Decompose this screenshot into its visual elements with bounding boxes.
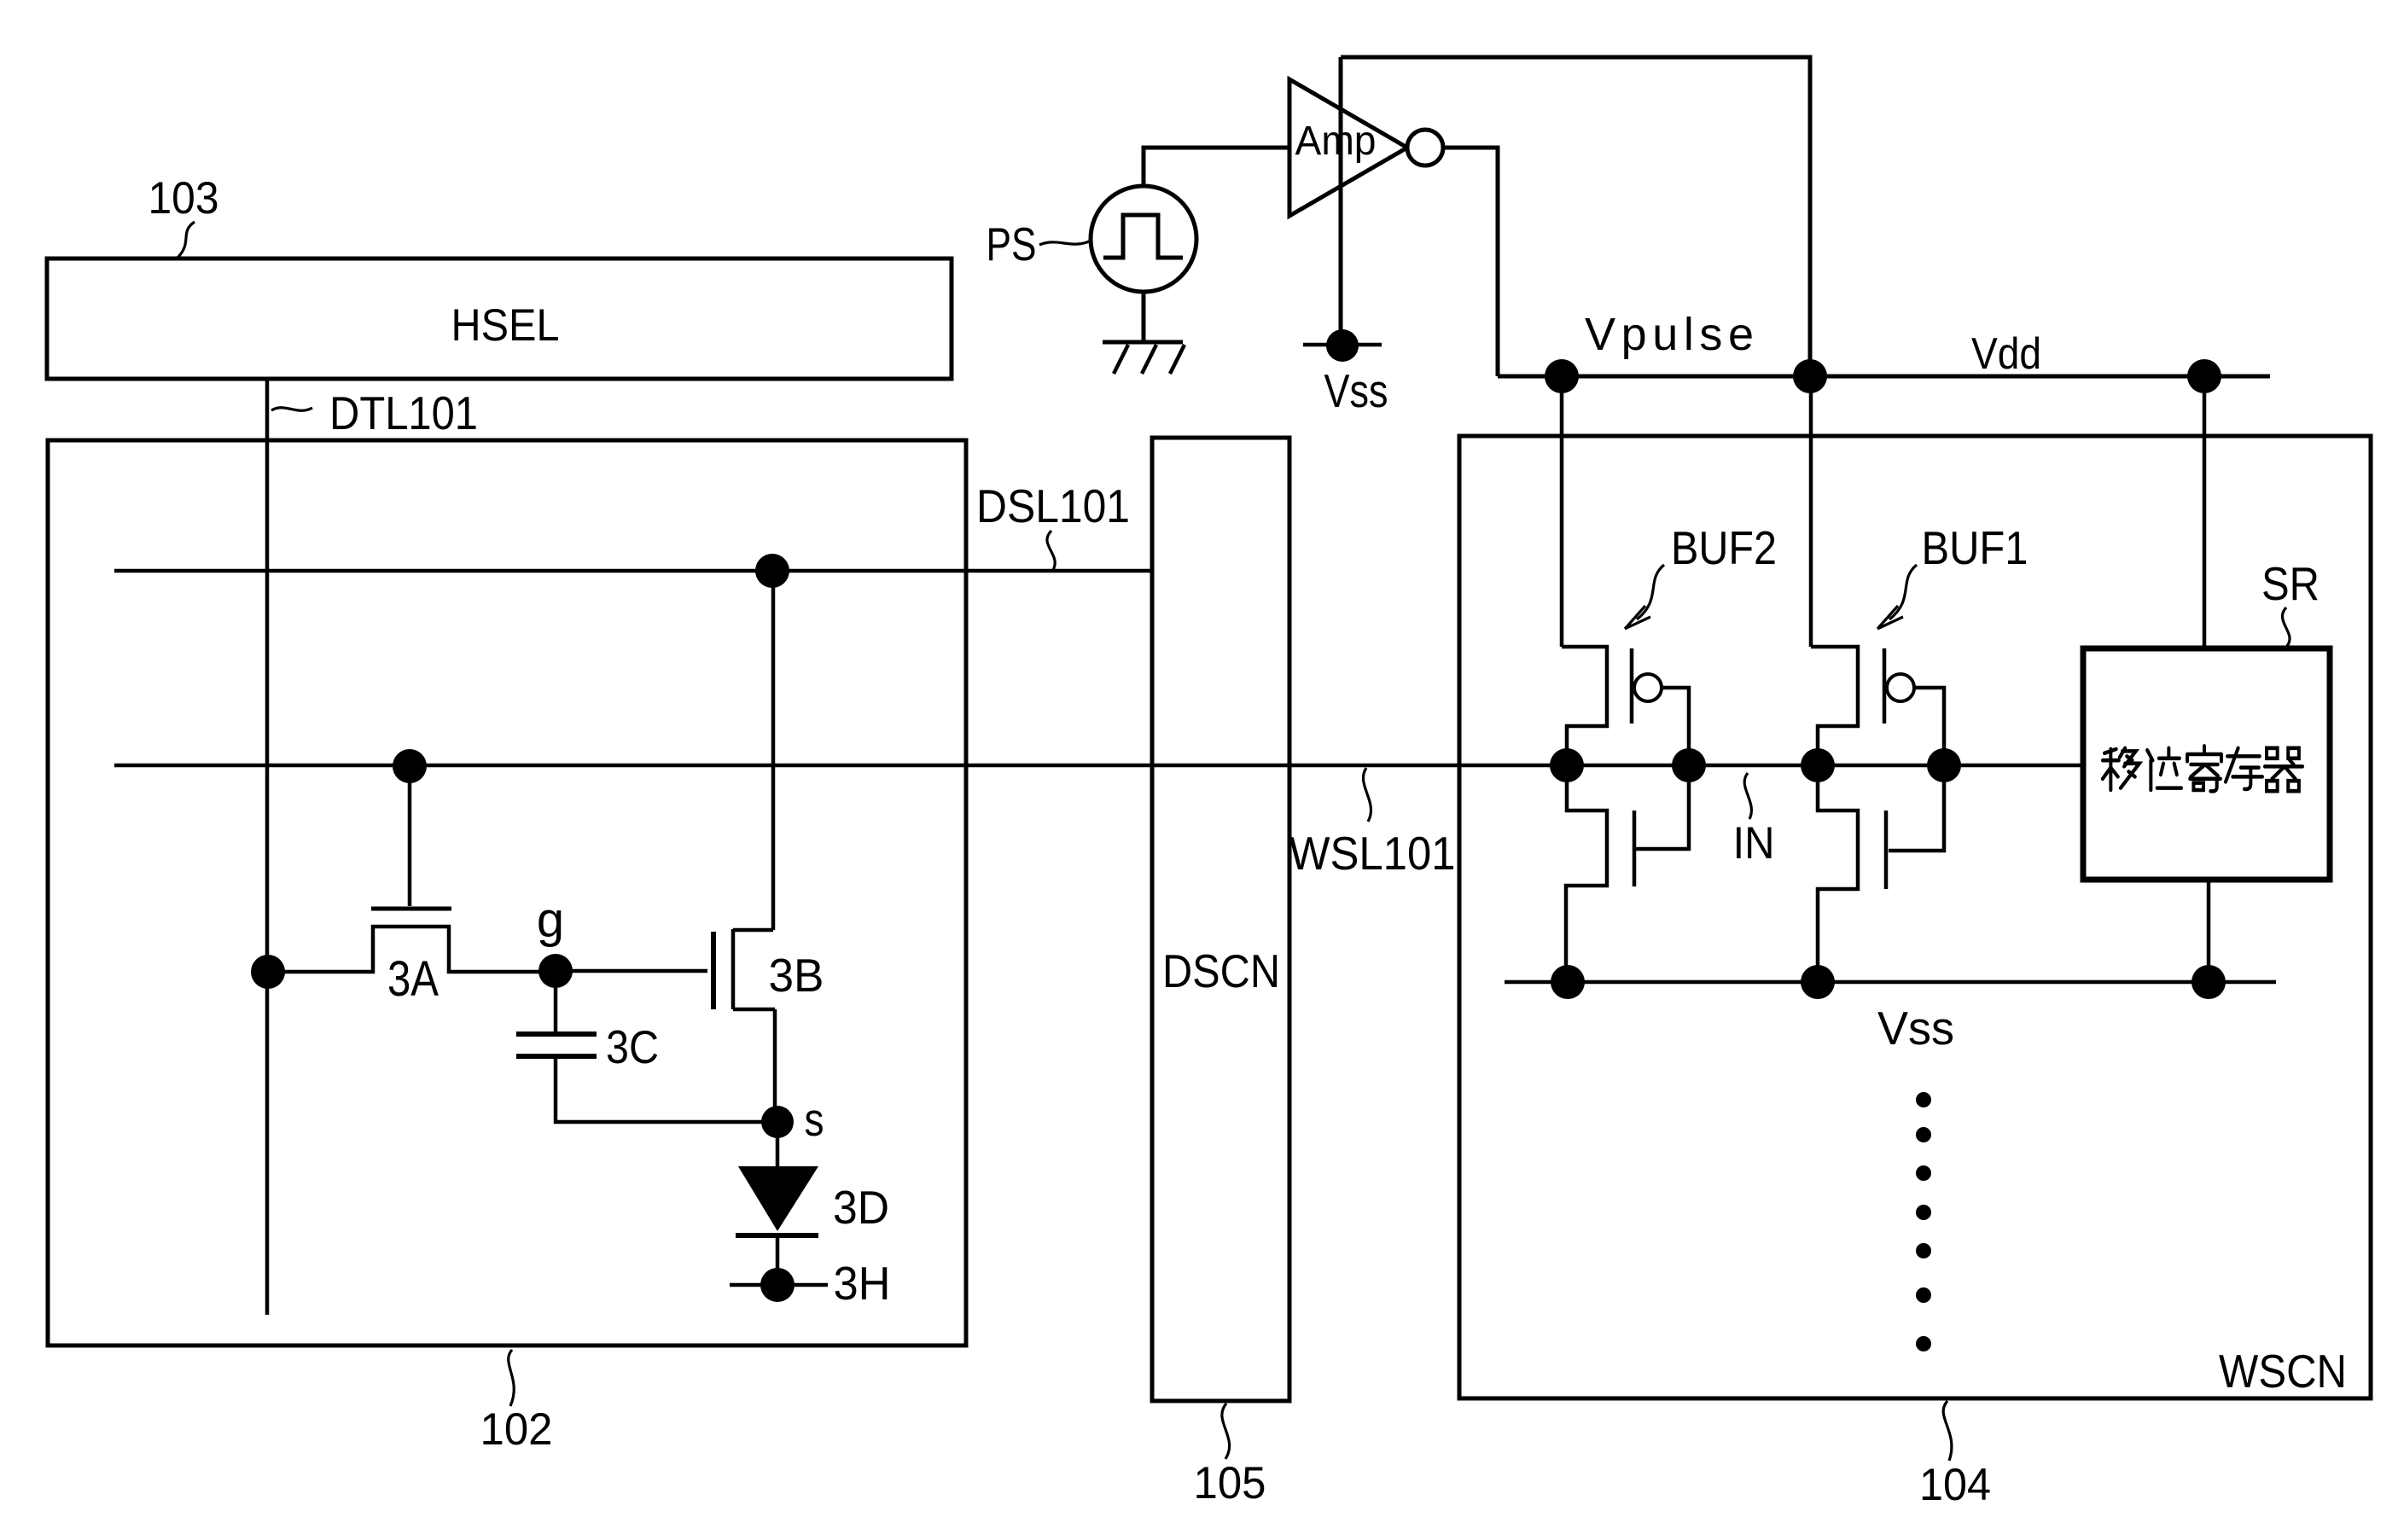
node BUF1 in [1927,748,1961,782]
leader squiggle WSL101 [1363,768,1371,822]
svg-text:BUF2: BUF2 [1671,521,1777,574]
box SR shift register [2083,648,2330,880]
svg-text:105: 105 [1194,1458,1266,1508]
svg-text:3A: 3A [387,951,439,1007]
pulse source PS [1091,186,1196,292]
node DSL101 junction [755,554,789,588]
node SR Vss [2192,965,2226,999]
arrow BUF2 [1637,565,1664,619]
photodiode 3D [776,1122,780,1166]
transistor BUF2 PMOS [1562,647,1607,765]
wire DTL101 [265,379,270,1315]
Vss terminal under Amp [1303,343,1382,347]
svg-text:103: 103 [148,173,219,224]
wire amp output to Vpulse rail [1443,148,1498,376]
capacitor 3C [554,971,558,1032]
wire WSL101 [114,764,2083,768]
node Vdd junction [1793,359,1827,393]
svg-text:102: 102 [480,1404,553,1455]
wire Vpulse feed [1560,376,1564,647]
node SR feed [2187,359,2221,393]
leader squiggle IN [1744,773,1751,819]
label shift register CJK (hand-drawn) [2103,746,2302,791]
svg-text:3C: 3C [606,1020,659,1073]
node DTL junction [251,955,285,989]
svg-text:Vpulse: Vpulse [1585,309,1754,360]
char cun (store) [2226,748,2262,789]
transistor BUF2 NMOS [1566,765,1607,982]
box 102 pixel [48,440,966,1345]
Vpulse Vdd rail [1498,375,2270,379]
svg-text:3H: 3H [834,1257,891,1310]
leader squiggle 102 [509,1350,515,1406]
box DSCN 105 [1152,438,1289,1401]
leader squiggle DSL101 [1047,531,1055,570]
node 3A gate tap [393,749,427,783]
wire feedback top rail [1341,57,1810,376]
node BUF2 in [1672,748,1706,782]
svg-text:Vdd: Vdd [1971,329,2041,379]
box WSCN 104 [1459,436,2371,1398]
node s [761,1106,794,1138]
svg-text:WSCN: WSCN [2219,1345,2347,1398]
svg-text:Amp: Amp [1295,119,1377,164]
node g [538,954,573,988]
svg-text:3B: 3B [769,949,824,1002]
svg-text:DSL101: DSL101 [976,479,1130,532]
svg-text:BUF1: BUF1 [1922,521,2029,574]
transistor 3A [371,907,451,911]
wire SR bottom [2207,880,2211,982]
wire 3B drain [771,571,776,930]
wire PS to Amp input [1144,148,1289,186]
char wei (position) [2147,748,2181,790]
transistor 3B [711,932,716,1009]
svg-text:DTL101: DTL101 [329,386,478,439]
char yi (shift) [2103,748,2139,790]
wire Vss rail [1505,980,2276,985]
svg-text:HSEL: HSEL [451,300,560,351]
svg-text:g: g [537,892,564,948]
char qi (device) [2265,748,2302,791]
node BUF1 out [1801,748,1835,782]
leader squiggle 104 [1943,1401,1952,1461]
svg-text:WSL101: WSL101 [1289,827,1456,880]
box HSEL 103 [47,259,952,379]
wire amp to Vss terminal [1339,57,1343,346]
leader squiggle PS [1039,241,1089,245]
transistor BUF1 PMOS [1811,647,1858,765]
char ji (lodge) [2187,746,2221,791]
wire 3A gate [408,766,412,906]
leader squiggle DTL101 [271,408,312,411]
svg-text:IN: IN [1733,818,1775,869]
leader squiggle 105 [1222,1403,1230,1459]
wire Vdd feed [1809,376,1813,647]
svg-text:3D: 3D [833,1181,889,1234]
wire SR feed [2203,376,2207,650]
node BUF1 Vss [1801,965,1835,999]
svg-text:104: 104 [1919,1460,1991,1510]
op-amp Amp [1289,79,1407,216]
arrow BUF1 [1889,565,1917,619]
wire g to 3B gate [556,969,707,973]
dotted continuation [1916,1092,1931,1351]
output bubble [1407,130,1443,166]
wire 3B source [773,1009,777,1122]
svg-text:s: s [805,1093,824,1146]
node BUF2 Vss [1551,965,1585,999]
node BUF2 out [1550,748,1584,782]
svg-text:Vss: Vss [1324,364,1388,417]
transistor BUF1 NMOS [1818,765,1858,980]
leader squiggle SR [2282,607,2290,646]
wire DSL101 [114,569,1152,573]
svg-text:SR: SR [2261,557,2320,610]
svg-text:PS: PS [987,218,1037,270]
leader squiggle 103 [178,222,195,258]
svg-text:Vss: Vss [1877,1002,1954,1055]
terminal 3H [730,1283,828,1287]
node Vpulse [1545,359,1579,393]
ground [1103,292,1183,342]
svg-text:DSCN: DSCN [1162,944,1280,997]
